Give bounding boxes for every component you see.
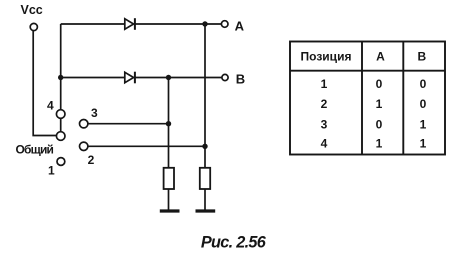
- diode D2: [125, 72, 135, 84]
- svg-text:2: 2: [321, 97, 328, 111]
- wire A rail (right of diode): [135, 23, 221, 25]
- svg-text:0: 0: [376, 77, 383, 91]
- svg-text:Vcc: Vcc: [21, 3, 43, 17]
- wire node A down to resistor R2: [204, 24, 206, 168]
- svg-text:B: B: [236, 72, 245, 87]
- wire R2 to ground: [204, 189, 206, 211]
- resistor R1: [164, 168, 174, 189]
- wire contact 3 to node B line: [88, 123, 169, 125]
- junction contact-2 wire / R2 line: [202, 144, 207, 149]
- terminal A: [221, 21, 228, 28]
- table row 1: [321, 77, 427, 91]
- svg-text:Рис. 2.56: Рис. 2.56: [201, 234, 267, 252]
- svg-text:Общий: Общий: [16, 143, 54, 157]
- svg-text:2: 2: [88, 153, 95, 167]
- truth table frame: [290, 42, 445, 155]
- switch contact 3: [80, 120, 88, 128]
- svg-text:1: 1: [48, 164, 55, 178]
- svg-text:3: 3: [91, 106, 98, 120]
- svg-text:A: A: [376, 50, 385, 64]
- svg-text:4: 4: [47, 99, 54, 113]
- junction node B / pull-down line: [166, 75, 171, 80]
- switch common contact: [56, 132, 65, 141]
- terminal B: [222, 74, 228, 80]
- wire node B down to resistor R1: [168, 78, 170, 168]
- svg-text:1: 1: [376, 97, 383, 111]
- wire R1 to ground: [168, 189, 170, 211]
- svg-text:1: 1: [420, 117, 427, 131]
- svg-text:3: 3: [321, 117, 328, 131]
- switch wiper (common to contact 4): [60, 118, 62, 131]
- wire B rail (right of diode): [135, 77, 222, 79]
- svg-text:4: 4: [321, 137, 328, 151]
- resistor R2: [200, 168, 210, 189]
- wire contact 4 up to node A rail: [60, 24, 62, 110]
- wire B rail (left of diode): [61, 77, 125, 79]
- svg-text:0: 0: [376, 117, 383, 131]
- switch contact 4: [56, 110, 65, 119]
- svg-text:Позиция: Позиция: [301, 50, 352, 64]
- svg-text:1: 1: [376, 137, 383, 151]
- svg-text:0: 0: [420, 97, 427, 111]
- wire Vcc terminal to switch common: [33, 31, 56, 136]
- ground (right): [196, 209, 216, 212]
- wire A rail (left of diode): [61, 23, 125, 25]
- svg-text:0: 0: [420, 77, 427, 91]
- svg-text:1: 1: [321, 77, 328, 91]
- ground (left): [160, 209, 180, 212]
- table row 3: [321, 117, 427, 131]
- terminal Vcc: [30, 23, 37, 30]
- junction node A / pull-down line: [202, 21, 207, 26]
- wire contact 2 to node A line: [88, 145, 205, 147]
- switch contact 2: [80, 142, 88, 150]
- table row 2: [321, 97, 427, 111]
- diode D1: [125, 18, 135, 30]
- svg-text:1: 1: [420, 137, 427, 151]
- junction contact-3 wire / R1 line: [166, 121, 171, 126]
- svg-text:B: B: [417, 50, 426, 64]
- table row 4: [321, 137, 427, 151]
- svg-text:A: A: [235, 19, 245, 34]
- switch contact 1: [57, 158, 65, 166]
- junction node B on switch line: [58, 75, 63, 80]
